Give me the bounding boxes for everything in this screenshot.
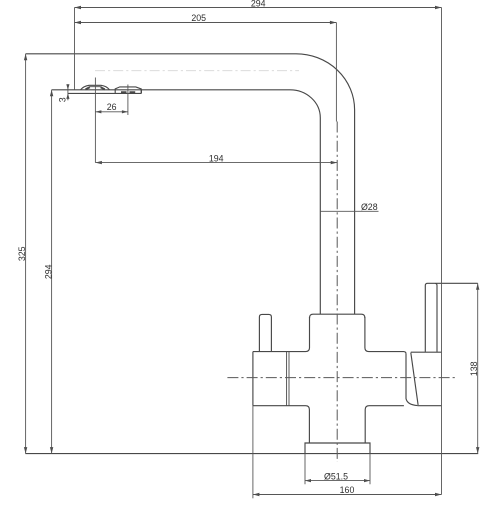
extension line through cap center for 26 dim <box>127 85 129 116</box>
faint centerline of horizontal spout <box>95 70 299 72</box>
right valve cap bottom edge <box>418 405 442 407</box>
aerator dome inner shading <box>86 87 105 89</box>
spout tip right edge tick <box>140 90 142 94</box>
svg-text:3: 3 <box>57 97 67 102</box>
lower column right edge into right arm bottom <box>365 406 404 443</box>
svg-text:294: 294 <box>251 0 266 8</box>
left lever stick <box>259 314 271 351</box>
arrows 294 top <box>75 6 82 9</box>
svg-text:294: 294 <box>43 264 53 279</box>
aerator dome inner detail <box>86 87 104 90</box>
extension lines for diameter 51.5 <box>305 454 370 485</box>
dim line 138 vertical <box>477 283 479 453</box>
dim line 160 <box>253 494 442 496</box>
body neck right side into right arm top <box>365 317 405 352</box>
arrows 26 <box>95 110 101 113</box>
dim line 294 top <box>75 7 442 9</box>
diverter cap inner bar <box>121 91 135 93</box>
dim line 325 vertical <box>25 54 27 454</box>
arrows 205 <box>75 21 82 24</box>
right valve cap top edge <box>404 352 441 354</box>
right valve cap collar curve <box>406 354 418 406</box>
extension for 205 right end down to spout elbow <box>335 23 337 122</box>
horizontal centerline of body arms (dash-dot) <box>227 377 457 379</box>
leader line for diameter 28 <box>320 210 378 212</box>
arrows 294 left <box>50 90 53 97</box>
dim line 294 left vertical <box>51 90 53 454</box>
dim line 3 (tip drop) <box>67 84 69 100</box>
svg-text:138: 138 <box>469 361 479 376</box>
extension line right for 294 top dim / 160 dim (also right valve cap right edge) <box>441 8 443 495</box>
base flange outline <box>305 443 370 454</box>
dim line 194 <box>95 162 337 164</box>
svg-text:Ø51.5: Ø51.5 <box>324 471 348 481</box>
left valve cap left edge <box>252 352 254 406</box>
dim line 205 <box>75 22 337 24</box>
aerator dome (left knob on spout tip) <box>81 85 110 89</box>
right valve cap diagonal <box>411 353 418 405</box>
arrows 325 <box>24 54 27 61</box>
centerline of vertical pipe and body (dash-dot) <box>336 122 338 463</box>
extension line left (spout tip end) for 294/205 dims <box>74 8 76 90</box>
arrows 138 <box>476 283 479 290</box>
dim line diameter 51.5 <box>305 480 370 482</box>
spout tip lower outlet line (3mm drop) <box>68 92 141 94</box>
svg-text:26: 26 <box>107 102 117 112</box>
extension line through dome center shared by 26 and 194 dims <box>94 78 96 163</box>
left arm bottom into lower column left edge <box>253 406 310 443</box>
arrows 160 <box>253 493 260 496</box>
counter base line <box>25 453 478 455</box>
diverter cap (right knob on spout tip) <box>115 87 141 93</box>
svg-text:160: 160 <box>340 485 355 495</box>
body neck left side into left arm top <box>253 317 310 352</box>
right lever stick with top edge extended to 138 dim <box>425 283 477 352</box>
left valve joint double line <box>287 352 289 406</box>
arrows 194 <box>95 161 102 164</box>
body neck top shoulder <box>310 314 365 318</box>
spout outer profile: top line, outer elbow arc, pipe right edge <box>26 54 355 314</box>
extension left body edge down to 160 dim <box>252 406 254 499</box>
dim line 26 <box>95 111 128 113</box>
svg-text:205: 205 <box>191 13 206 23</box>
arrows 3 (outside, pointing at the two lines) <box>66 84 69 90</box>
svg-text:325: 325 <box>17 246 27 261</box>
arrows diameter 51.5 <box>305 479 311 482</box>
spout inner profile: bottom line, inner elbow arc, pipe left edge <box>52 90 321 314</box>
svg-text:Ø28: Ø28 <box>361 202 378 212</box>
svg-text:194: 194 <box>209 154 224 164</box>
